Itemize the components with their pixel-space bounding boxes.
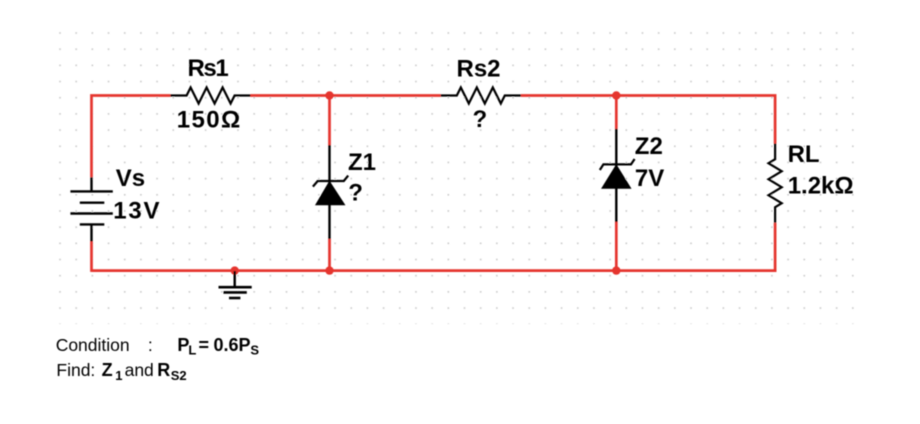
text: find line "Find: Z1 and RS2" (56, 360, 186, 383)
wire: Z2 branch bottom (red) (615, 222, 618, 271)
svg-text:and: and (125, 360, 154, 380)
svg-text:1: 1 (115, 368, 122, 383)
svg-text:Find:: Find: (56, 360, 95, 380)
svg-text:=: = (199, 335, 210, 355)
svg-text:1.2kΩ: 1.2kΩ (788, 172, 854, 199)
zener diode Z2 (600, 129, 635, 222)
wire: Z1 branch top (red) (328, 96, 331, 146)
svg-text:S: S (250, 342, 259, 357)
junction dot: Z2 top node (612, 91, 620, 99)
svg-text:13V: 13V (113, 197, 161, 224)
resistor RL (769, 144, 782, 223)
junction dot: Z1 top node (325, 91, 333, 99)
resistor Rs2 (441, 88, 521, 104)
ground symbol (219, 271, 252, 298)
svg-text:Z: Z (102, 360, 113, 380)
svg-text:Z1: Z1 (348, 149, 376, 176)
zener diode Z1 (313, 145, 348, 239)
text: condition line "Condition : PL = 0.6PS" (56, 335, 260, 357)
svg-text:7V: 7V (635, 165, 664, 192)
svg-text:Z2: Z2 (635, 133, 663, 160)
wire: top rail (red) from left corner to Rs1 (92, 96, 171, 178)
svg-text:150Ω: 150Ω (177, 107, 242, 134)
svg-text:RL: RL (788, 141, 820, 168)
wire: Z1 branch bottom (red) (328, 239, 331, 271)
resistor Rs1 (170, 88, 250, 104)
svg-text:R: R (157, 360, 170, 380)
svg-text:Condition: Condition (56, 335, 130, 355)
svg-text:Rs1: Rs1 (188, 55, 229, 82)
wire: bottom rail (red) (92, 269, 777, 272)
wire: top rail from Rs2 to top-right corner, down to RL (red) (521, 96, 775, 144)
junction dot: Z2 bottom node (612, 266, 620, 274)
svg-text:0.6P: 0.6P (214, 335, 251, 355)
wire: left branch below battery (red) (90, 242, 93, 272)
svg-text:L: L (188, 342, 196, 357)
junction dot: ground node (231, 266, 239, 274)
svg-text:Rs2: Rs2 (457, 56, 501, 83)
svg-text::: : (148, 335, 153, 355)
battery Vs (DC source) (70, 177, 112, 241)
svg-text:Vs: Vs (116, 165, 145, 192)
svg-text:?: ? (473, 106, 488, 133)
wire: top rail between Rs1 and Rs2 (red) (251, 94, 441, 97)
svg-text:S2: S2 (171, 368, 187, 383)
wire: Z2 branch top (red) (615, 96, 618, 129)
wire: right branch below RL (red) (774, 223, 777, 272)
junction dot: Z1 bottom node (325, 266, 333, 274)
svg-text:?: ? (348, 179, 363, 206)
